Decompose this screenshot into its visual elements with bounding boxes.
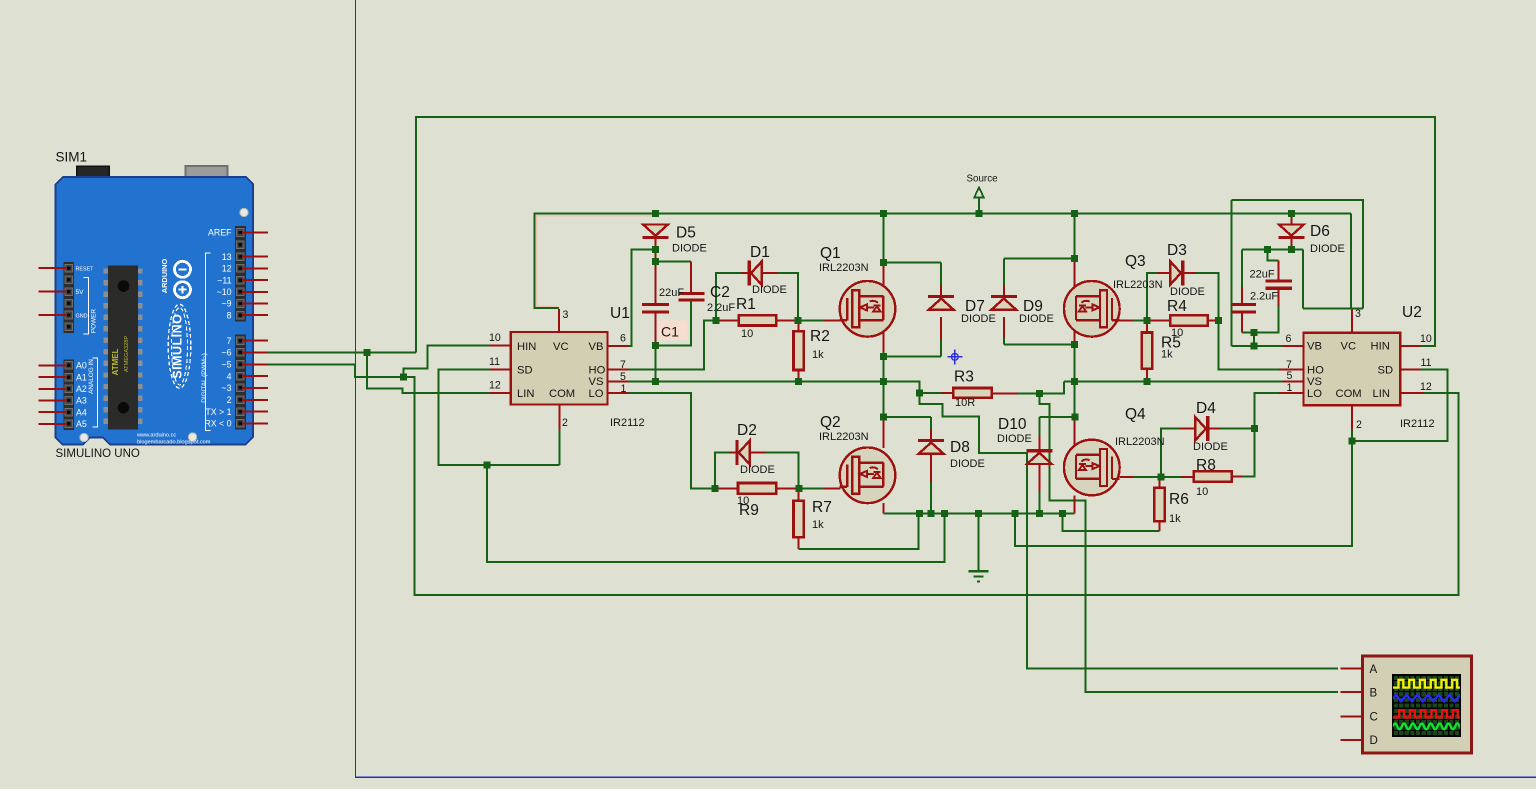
svg-text:RX < 0: RX < 0 [204, 419, 231, 429]
sheet border (blue) [356, 0, 1536, 777]
svg-text:C: C [1370, 711, 1378, 723]
wire D3 parallel loop [1147, 273, 1158, 320]
svg-text:10: 10 [1171, 327, 1183, 339]
node junction D5 top on VCC rail [652, 210, 659, 217]
svg-text:5: 5 [1287, 370, 1293, 382]
ground [969, 571, 989, 581]
diode D2 [737, 440, 750, 465]
node junction Arduino~6 [364, 349, 371, 356]
svg-text:A: A [1370, 664, 1378, 676]
node junction ground row COM2 tap [1012, 510, 1019, 517]
node junction Q3 source on VS2 [1071, 378, 1078, 385]
resistor R4 [1170, 315, 1208, 325]
svg-text:R8: R8 [1196, 457, 1216, 474]
wire C1 top lead [655, 262, 657, 303]
node origin crosshair marker [947, 349, 962, 364]
wire COM/SD down-run to Q2 source [487, 465, 945, 562]
wire C1 bottom to VS row [655, 345, 657, 381]
wire U1 HO to R1 [629, 320, 716, 369]
diode D8 [918, 441, 944, 454]
node junction R9 right / Q2 gate [796, 485, 803, 492]
svg-text:HO: HO [1307, 365, 1324, 377]
wire VCC rail top [534, 213, 1351, 215]
svg-text:R4: R4 [1167, 298, 1187, 315]
wire D6 bottom node row [1242, 248, 1303, 250]
wire D6 leads [1290, 214, 1292, 226]
diode D9 [991, 297, 1017, 310]
svg-text:1: 1 [621, 383, 627, 395]
svg-text:HIN: HIN [1371, 341, 1390, 353]
wire U2 COM/SD down-run [1015, 441, 1352, 546]
op-amp U2 IR2112 [1303, 333, 1400, 406]
wire Arduino left header stubs [39, 268, 67, 424]
svg-text:IRL2203N: IRL2203N [819, 431, 869, 443]
svg-text:10: 10 [1196, 486, 1208, 498]
svg-text:~10: ~10 [217, 287, 232, 297]
U1 pin names and numbers [489, 309, 627, 429]
resistor R6 [1154, 488, 1164, 521]
U2 pin names and numbers [1286, 308, 1432, 431]
wire D8 top link [883, 416, 931, 418]
svg-text:VS: VS [1307, 376, 1322, 388]
svg-text:12: 12 [1420, 381, 1432, 393]
node junction D4 right / U2 LO [1251, 425, 1258, 432]
wire Arduino pin ~5 [267, 364, 403, 377]
node junction R9 left / D2 [711, 485, 718, 492]
capacitor C2 [678, 294, 704, 300]
wire VB1 to C2 top [656, 261, 691, 263]
wire U2 pin stubs [1283, 345, 1304, 347]
svg-text:ATMEGA328P: ATMEGA328P [124, 336, 130, 373]
svg-text:C1: C1 [661, 324, 679, 340]
svg-text:6: 6 [1286, 333, 1292, 345]
wire pink ghost trace along VC wire [537, 216, 654, 306]
node junction C1 to VS1 row [652, 378, 659, 385]
node junction 22uF top tap [1264, 246, 1271, 253]
wire R2 leads [798, 320, 800, 331]
node junction R4 left / Q3 gate [1144, 317, 1151, 324]
svg-text:10: 10 [741, 328, 753, 340]
svg-text:11: 11 [489, 356, 500, 368]
wire Q2 drain [882, 382, 884, 418]
wire ground row [883, 513, 1074, 515]
svg-text:SIMULINO UNO: SIMULINO UNO [56, 448, 140, 460]
node junction R2 bottom on VS1 [795, 378, 802, 385]
svg-text:GND: GND [76, 313, 88, 319]
svg-text:12: 12 [222, 264, 232, 274]
svg-text:D8: D8 [950, 439, 970, 456]
wire ground stem [978, 514, 980, 572]
node junction VB1/D5 cathode [652, 246, 659, 253]
svg-text:U2: U2 [1402, 304, 1422, 321]
svg-text:LO: LO [589, 388, 604, 400]
svg-text:blogembarcado.blogspot.com: blogembarcado.blogspot.com [137, 439, 211, 445]
capacitor C1 [642, 305, 669, 312]
svg-text:VC: VC [1341, 341, 1357, 353]
svg-text:IR2112: IR2112 [1400, 418, 1435, 430]
wire U2 SD [1352, 370, 1448, 441]
wire VC2 bottom link [1303, 307, 1363, 309]
svg-text:~3: ~3 [221, 383, 231, 393]
node junction ground row stem [975, 510, 982, 517]
svg-text:IRL2203N: IRL2203N [1115, 436, 1165, 448]
svg-text:5V: 5V [76, 289, 85, 296]
svg-text:1k: 1k [1161, 349, 1173, 361]
wire Q2 gate [799, 488, 824, 490]
svg-text:~6: ~6 [221, 348, 231, 358]
node junction Q4 drain / D10 link [1072, 413, 1079, 420]
svg-text:D3: D3 [1167, 242, 1187, 259]
node junction Q1 drain on VCC rail [880, 210, 887, 217]
Arduino board SIM1 (SIMULINO UNO) [56, 150, 254, 445]
wire U2 VC drop [1350, 214, 1352, 309]
svg-text:A2: A2 [76, 384, 87, 394]
wire R4 leads [1147, 319, 1170, 321]
svg-text:22uF: 22uF [1250, 269, 1275, 281]
wire Q1 source [882, 320, 884, 352]
node junction U2 COM / SD [1348, 437, 1355, 444]
wire branch to U1 LIN [367, 352, 490, 393]
node junction Q3 source / D9 bottom [1071, 341, 1078, 348]
svg-text:6: 6 [620, 333, 626, 345]
wire D2 parallel loop [715, 453, 729, 489]
svg-text:RESET: RESET [76, 267, 95, 273]
svg-text:R2: R2 [810, 328, 830, 345]
svg-text:1: 1 [1287, 382, 1293, 394]
svg-text:DIGITAL (PWM~): DIGITAL (PWM~) [201, 353, 208, 403]
wire R6 leads [1159, 477, 1161, 488]
svg-text:A0: A0 [76, 361, 87, 371]
svg-text:C2: C2 [710, 284, 730, 301]
transistor Q3 [1064, 281, 1120, 337]
wire R8 leads [1161, 476, 1182, 478]
node junction R4 right / U2 HO [1215, 317, 1222, 324]
svg-text:1k: 1k [812, 349, 824, 361]
node junction Q3 drain on VCC rail [1071, 210, 1078, 217]
wire U2 COM vertical [1351, 429, 1353, 441]
svg-text:TX > 1: TX > 1 [205, 407, 231, 417]
wire U1 COM vertical [559, 429, 561, 465]
diode D10 [1026, 451, 1052, 464]
node junction D6 top on VCC rail [1288, 210, 1295, 217]
wire D10 top link to Q4 drain [1039, 416, 1075, 418]
svg-text:D4: D4 [1196, 400, 1216, 417]
wire Q2 source [882, 503, 884, 514]
wire oscilloscope pin stubs [1340, 667, 1362, 669]
wire R3 right lead [992, 392, 1018, 394]
svg-text:~5: ~5 [221, 360, 231, 370]
svg-text:POWER: POWER [91, 309, 98, 334]
svg-text:IR2112: IR2112 [610, 417, 645, 429]
svg-text:R3: R3 [954, 369, 974, 386]
wire D7 bottom loop [883, 356, 941, 358]
node junction Q1 source / D7 bottom [880, 353, 887, 360]
wire D9 bottom loop [1004, 343, 1075, 345]
resistor R3 [953, 388, 991, 398]
node junction ground row R7 tap [916, 510, 923, 517]
wire Q3 drain [1074, 214, 1076, 259]
svg-text:DIODE: DIODE [1193, 441, 1228, 453]
wire R6 bottom run [1063, 514, 1160, 532]
wire VB1 to U1 pin6 [629, 250, 656, 346]
wire U1 LO to R9 [629, 393, 715, 489]
node junction ground row D8 [928, 510, 935, 517]
svg-text:HIN: HIN [517, 341, 536, 353]
svg-text:10: 10 [489, 332, 501, 344]
wire D10 leads [1038, 417, 1040, 436]
wire Q4 source [1074, 495, 1076, 513]
svg-text:2: 2 [227, 395, 232, 405]
svg-text:2: 2 [1356, 419, 1362, 431]
component reference labels [610, 223, 1422, 519]
wire D1 parallel loop [716, 273, 741, 320]
svg-text:11: 11 [1421, 357, 1432, 369]
capacitor 22uF (right) [1266, 281, 1293, 288]
wire VS1 row [629, 382, 942, 393]
node junction Q1 drain / D7 top [880, 259, 887, 266]
node junction caps bottom [1251, 329, 1258, 336]
svg-text:LIN: LIN [517, 388, 534, 400]
svg-text:5: 5 [620, 371, 626, 383]
svg-text:22uF: 22uF [659, 287, 684, 299]
wire U1 VC drop [534, 213, 558, 308]
svg-text:DIODE: DIODE [672, 243, 707, 255]
wire D9 top loop [1004, 258, 1075, 260]
node junction Q2 drain / D8 link [880, 414, 887, 421]
wire 22uF cap top jog [1268, 249, 1279, 260]
svg-text:2.2uF: 2.2uF [707, 302, 735, 314]
node C1 selection highlight [659, 321, 688, 341]
diode D1 [749, 261, 762, 286]
wire jog to U1 HIN [403, 346, 489, 377]
svg-text:LO: LO [1307, 388, 1322, 400]
wire scope channel A run [919, 393, 1338, 669]
wire VB2 net [1232, 345, 1283, 347]
svg-text:10R: 10R [955, 397, 975, 409]
transistor Q4 [1064, 440, 1120, 496]
svg-text:SD: SD [1378, 365, 1394, 377]
wire R5 leads [1146, 320, 1148, 332]
svg-text:DIODE: DIODE [752, 284, 787, 296]
oscilloscope instrument [1363, 656, 1472, 753]
wire 2.2uF cap top [1241, 249, 1243, 287]
svg-text:D2: D2 [737, 422, 757, 439]
svg-text:HO: HO [589, 365, 606, 377]
svg-text:Q3: Q3 [1125, 253, 1146, 270]
node junction VS1 scope-A tap [916, 389, 923, 396]
node junction R1 right / Q1 gate [795, 317, 802, 324]
svg-text:D: D [1370, 735, 1378, 747]
svg-text:Q2: Q2 [820, 414, 841, 431]
svg-text:8: 8 [227, 310, 232, 320]
diode D4 [1195, 416, 1208, 441]
diode D5 [643, 225, 669, 238]
svg-text:DIODE: DIODE [1019, 313, 1054, 325]
node junction ground row D10 [1036, 510, 1043, 517]
wire D7 leads [940, 263, 942, 285]
svg-text:AREF: AREF [208, 228, 232, 238]
transistor Q2 [840, 448, 896, 504]
svg-text:A5: A5 [76, 419, 87, 429]
resistor R7 [794, 501, 804, 537]
svg-text:ANALOG IN: ANALOG IN [88, 359, 95, 394]
node junction Q3 drain / D9 top [1071, 255, 1078, 262]
svg-text:DIODE: DIODE [950, 458, 985, 470]
svg-text:COM: COM [1336, 388, 1362, 400]
node junction Q1 source on VS1 [880, 378, 887, 385]
wire Q1 drain [882, 214, 884, 263]
wire caps to VB2 row [1253, 333, 1255, 346]
svg-text:DIODE: DIODE [1310, 243, 1345, 255]
wire Q1 gate [798, 319, 824, 321]
svg-text:www.arduino.cc: www.arduino.cc [136, 433, 176, 439]
svg-text:VB: VB [1307, 341, 1322, 353]
wire U2 LO run [1255, 393, 1279, 429]
svg-text:SIMULINO: SIMULINO [170, 314, 184, 379]
node junction R8 left / Q4 gate [1157, 474, 1164, 481]
resistor R1 [739, 315, 777, 325]
svg-text:IRL2203N: IRL2203N [1113, 279, 1163, 291]
svg-text:IRL2203N: IRL2203N [819, 262, 869, 274]
wire C2 bottom loop [656, 301, 691, 345]
svg-text:10: 10 [1420, 333, 1432, 345]
wire Q3 source [1074, 320, 1076, 341]
node junction R3 right / D10 / scope-B [1036, 390, 1043, 397]
capacitor 2.2uF (right) [1231, 305, 1256, 312]
svg-text:DIODE: DIODE [961, 313, 996, 325]
diode D6 [1278, 225, 1304, 238]
svg-text:R1: R1 [736, 296, 756, 313]
wire scope channel B run [1039, 393, 1338, 692]
node junction COM1 [483, 462, 490, 469]
svg-text:VB: VB [589, 341, 604, 353]
wire Q4 gate [1120, 476, 1133, 478]
wire D7 top loop [883, 262, 941, 264]
svg-text:Source: Source [967, 174, 999, 185]
svg-text:4: 4 [227, 371, 232, 381]
svg-text:D1: D1 [750, 244, 770, 261]
wire top rail (Arduino ~6 / U1 LIN / U2 HIN net) [416, 117, 1435, 352]
svg-text:R7: R7 [812, 499, 832, 516]
svg-text:3: 3 [1355, 308, 1361, 320]
resistor R8 [1194, 471, 1232, 481]
svg-text:SIM1: SIM1 [56, 150, 88, 165]
svg-text:DIODE: DIODE [997, 433, 1032, 445]
node Source power terminal [974, 188, 984, 214]
wire C1 bottom lead [655, 313, 657, 345]
svg-text:7: 7 [227, 336, 232, 346]
svg-text:DIODE: DIODE [740, 464, 775, 476]
svg-text:B: B [1370, 688, 1378, 700]
svg-text:A3: A3 [76, 396, 87, 406]
svg-text:Q1: Q1 [820, 245, 841, 262]
svg-text:D6: D6 [1310, 223, 1330, 240]
svg-text:10: 10 [737, 495, 749, 507]
node junction Arduino~5 [400, 374, 407, 381]
wire Arduino right header stubs [242, 233, 268, 424]
resistor R2 [794, 331, 804, 370]
resistor R9 [738, 483, 776, 494]
resistor R5 [1142, 333, 1152, 369]
wire Q3 gate [1120, 319, 1133, 321]
svg-text:ATMEL: ATMEL [111, 348, 120, 375]
wire D9 leads [1003, 259, 1005, 285]
svg-text:SD: SD [517, 365, 533, 377]
svg-text:A1: A1 [76, 372, 87, 382]
component value labels [610, 174, 1435, 532]
diode D3 [1170, 261, 1183, 286]
svg-text:2.2uF: 2.2uF [1250, 291, 1278, 303]
wire 22uF cap bottom [1277, 290, 1279, 306]
wire bottom rail (Arduino ~5 / U1 HIN / U2 LIN net) [403, 377, 1458, 595]
wire R1 leads [716, 319, 739, 321]
node junction R5 bottom on VS2 [1144, 378, 1151, 385]
wire R3-right up to VS2 row [1039, 381, 1064, 393]
wire U1 SD [439, 370, 560, 465]
wire C2 top lead [690, 262, 692, 292]
node junction C2 top tap [652, 258, 659, 265]
svg-text:R6: R6 [1169, 491, 1189, 508]
wire U1 pin stubs [490, 345, 511, 347]
wire Q4 drain lead [1074, 417, 1076, 448]
wire R7 leads [798, 489, 800, 501]
svg-text:D10: D10 [998, 416, 1027, 433]
svg-text:ARDUINO: ARDUINO [160, 259, 169, 294]
Arduino silkscreen texts [56, 228, 233, 460]
svg-text:Q4: Q4 [1125, 406, 1146, 423]
wire R9 leads [715, 488, 738, 490]
svg-text:2: 2 [562, 417, 568, 429]
wire VS2 row [1064, 380, 1283, 382]
node junction R1 left / D1 [712, 317, 719, 324]
svg-text:12: 12 [489, 380, 501, 392]
svg-text:DIODE: DIODE [1170, 286, 1205, 298]
node junction ground row COM1 tap [941, 510, 948, 517]
svg-text:VS: VS [589, 376, 604, 388]
svg-text:~9: ~9 [221, 299, 231, 309]
wire D8 leads [930, 417, 932, 430]
node junction Source on VCC rail [976, 210, 983, 217]
wire D5 bottom lead [655, 238, 657, 262]
svg-text:U1: U1 [610, 305, 630, 322]
wire R3 left lead [941, 392, 953, 394]
wire D4 parallel loop [1161, 429, 1180, 477]
svg-text:~11: ~11 [217, 275, 231, 285]
diode D7 [928, 297, 954, 310]
svg-text:A4: A4 [76, 407, 87, 417]
svg-text:3: 3 [563, 309, 569, 321]
transistor Q1 [840, 281, 896, 337]
wire R8 right link [1243, 429, 1255, 477]
svg-text:1k: 1k [1169, 513, 1181, 525]
node junction D6 cathode node [1288, 246, 1295, 253]
wire R7 bottom run [799, 514, 919, 549]
wire Arduino pin ~6 [267, 351, 416, 353]
svg-text:VC: VC [553, 341, 569, 353]
svg-text:LIN: LIN [1373, 388, 1390, 400]
node junction ground row R6 tap [1059, 510, 1066, 517]
op-amp U1 IR2112 [511, 332, 608, 405]
svg-text:13: 13 [222, 252, 232, 262]
wire U2 HO run [1218, 320, 1279, 369]
svg-text:COM: COM [549, 388, 575, 400]
svg-text:1k: 1k [812, 519, 824, 531]
svg-text:7: 7 [620, 359, 626, 371]
svg-text:D5: D5 [676, 225, 696, 242]
node junction C1 bottom [652, 342, 659, 349]
wire 2.2uF cap bottom [1241, 313, 1243, 332]
node junction caps to VB2 row [1251, 342, 1258, 349]
